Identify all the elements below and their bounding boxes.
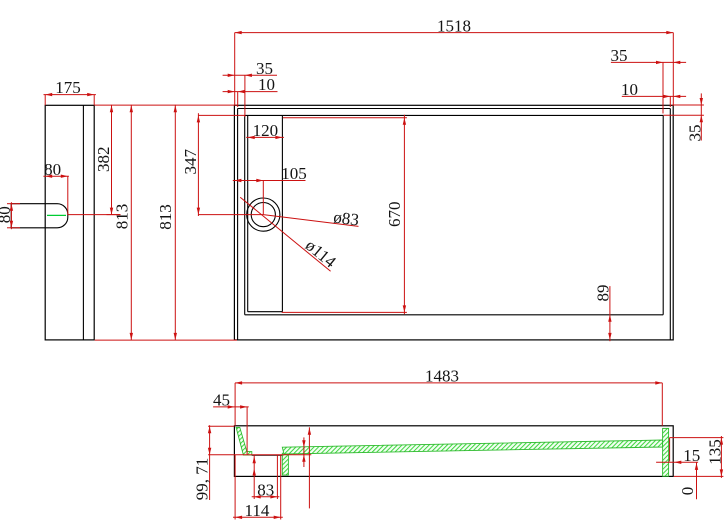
dimension 670 extension lines — [282, 118, 407, 313]
dimension left 35 text — [256, 59, 273, 78]
top extension line between views — [95, 104, 237, 106]
svg-text:1483: 1483 — [425, 367, 459, 386]
dimension diameter 114 text — [302, 236, 340, 272]
svg-text:10: 10 — [621, 80, 638, 99]
svg-text:114: 114 — [244, 501, 269, 520]
dimension 347 line — [197, 113, 245, 216]
dimension 813 side line — [130, 105, 133, 340]
svg-text:10: 10 — [258, 75, 275, 94]
dimension 45 line — [213, 405, 249, 454]
svg-text:80: 80 — [0, 206, 14, 223]
dimension 99,71 text — [192, 458, 211, 501]
dimension right 35 line — [611, 61, 686, 114]
svg-text:813: 813 — [156, 204, 175, 230]
dimension 135 text — [705, 439, 724, 465]
dimension 80v line — [10, 202, 13, 229]
dimension 15 text — [683, 446, 700, 465]
dimension 89 line — [608, 286, 611, 341]
plan view basin inner slope line — [248, 115, 283, 311]
drain floor level extension line — [208, 454, 311, 456]
svg-text:813: 813 — [112, 204, 131, 230]
section green left slope — [236, 427, 252, 455]
svg-text:99, 71: 99, 71 — [192, 458, 211, 501]
dimension 80h line — [43, 175, 69, 215]
dimension left 35 line — [223, 74, 277, 117]
dimension right 10 line — [622, 95, 686, 107]
dimension section 114 extension lines — [235, 455, 281, 520]
floor step arrows — [302, 437, 305, 467]
dimension 120 line — [246, 136, 284, 139]
svg-text:347: 347 — [181, 149, 200, 175]
svg-text:83: 83 — [257, 480, 274, 499]
dimension 1483 text — [425, 367, 459, 386]
dimension section 114 text — [244, 501, 269, 520]
svg-text:45: 45 — [213, 391, 230, 410]
dimension 813 plan line — [174, 105, 177, 340]
dimension 670 text — [385, 201, 404, 227]
dimension 382 line — [107, 105, 121, 215]
dimension section 83 extension lines — [253, 455, 278, 499]
dimension 1483 line — [235, 381, 662, 384]
side view drain pipe stub — [11, 204, 68, 228]
dimension 135 extension lines — [670, 438, 724, 477]
dimension 80h text — [44, 160, 61, 179]
dimension section 83 text — [257, 480, 274, 499]
svg-text:120: 120 — [253, 121, 279, 140]
plan view rim line (10mm offset) — [238, 109, 671, 340]
dimension 45 text — [213, 391, 230, 410]
dimension 89 text — [593, 285, 612, 302]
floor witness line — [308, 427, 311, 508]
dimension 15 line — [656, 438, 698, 464]
section drain recess floor line — [252, 454, 283, 456]
svg-text:0: 0 — [678, 487, 697, 496]
dimension 670 line — [403, 115, 406, 314]
svg-text:ø83: ø83 — [332, 208, 360, 230]
svg-text:35: 35 — [685, 125, 704, 142]
dimension rotated 35 extension lines — [663, 105, 704, 115]
drain inner circle — [251, 203, 275, 227]
svg-text:105: 105 — [281, 164, 307, 183]
dimension 1518 extension lines — [235, 33, 674, 106]
section body rectangle — [234, 426, 673, 477]
dimension 175 text — [55, 78, 81, 97]
dimension 0 line — [695, 462, 698, 499]
side view outer rectangle — [45, 105, 94, 340]
dimension diameter 114 leader — [240, 197, 330, 271]
dimension 347 text — [181, 149, 200, 175]
dimension diameter 83 text — [332, 208, 360, 230]
svg-text:1518: 1518 — [437, 16, 471, 35]
dimension right 10 text — [621, 80, 638, 99]
dimension left 10 text — [258, 75, 275, 94]
dimension 382 text — [94, 146, 113, 172]
dimension 135 line — [720, 436, 723, 478]
dimension 80v extension lines — [7, 204, 20, 228]
dimension section 83 line — [252, 495, 280, 498]
dimension diameter 83 leader — [263, 215, 358, 227]
dimension 813 side text — [112, 204, 131, 230]
side view pipe green centerline — [47, 214, 66, 216]
plan view strip divider line — [281, 115, 283, 311]
dimension right 35 text — [611, 46, 628, 65]
section green drain pipe walls — [282, 453, 288, 475]
dimension 1518 line — [235, 31, 674, 34]
dimension 0 text — [678, 487, 697, 496]
dimension rotated 35 line — [700, 93, 703, 140]
dimension rotated 35 text — [685, 125, 704, 142]
dimension 80v text — [0, 206, 14, 223]
dimension 1518 text — [437, 16, 471, 35]
side view wall line — [82, 105, 84, 340]
section green right wall — [663, 428, 669, 476]
dimension left 10 line — [223, 90, 278, 107]
dimension 99,71 extension lines — [208, 425, 234, 427]
plan view basin outline — [245, 115, 664, 314]
svg-text:135: 135 — [705, 439, 724, 465]
dimension 99,71 line — [208, 425, 211, 500]
drain outer circle — [247, 198, 280, 231]
dimension 105 line — [233, 179, 306, 215]
bottom extension line between views — [95, 339, 237, 341]
dimension 120 text — [253, 121, 279, 140]
svg-text:382: 382 — [94, 146, 113, 172]
dimension section 114 line — [233, 516, 283, 519]
drain red centerline — [68, 214, 263, 216]
svg-text:89: 89 — [593, 285, 612, 302]
dimension 1483 extension lines — [235, 383, 662, 426]
dimension 813 plan text — [156, 204, 175, 230]
svg-text:670: 670 — [385, 201, 404, 227]
svg-text:15: 15 — [683, 446, 700, 465]
section green floor band — [282, 440, 662, 454]
svg-text:80: 80 — [44, 160, 61, 179]
plan view outer rectangle — [234, 105, 673, 340]
svg-text:35: 35 — [611, 46, 628, 65]
dimension 105 text — [281, 164, 307, 183]
dimension 175 line — [44, 93, 96, 105]
svg-text:175: 175 — [55, 78, 81, 97]
